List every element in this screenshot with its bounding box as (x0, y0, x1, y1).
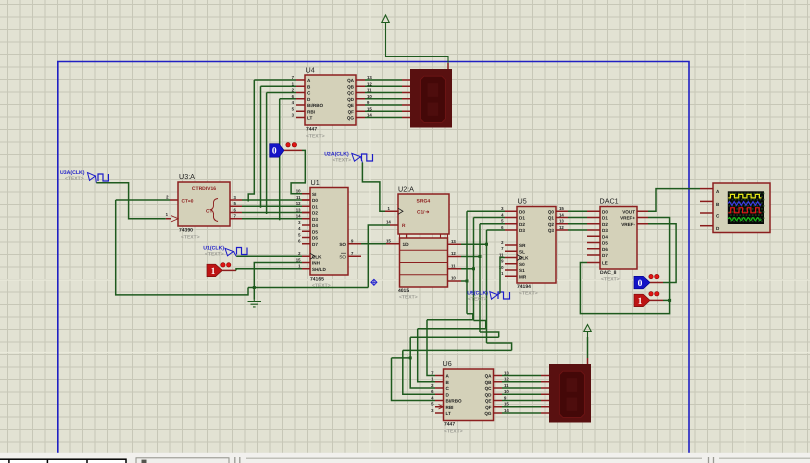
junction bus riser 0 tap (466, 280, 469, 283)
svg-text:<TEXT>: <TEXT> (65, 176, 84, 182)
U6 pin 15 stub (494, 406, 503, 408)
logicstate 0 tag near U4 (270, 144, 284, 158)
wire logic 1 to VREF+ net (663, 299, 670, 301)
wire U1 SO to U2:A 1D (361, 243, 386, 245)
DAC1 pin D0 stub (587, 210, 600, 212)
DAC1 pin D6 stub (587, 248, 600, 250)
U1 pin 10 stub (SI) (302, 193, 310, 195)
svg-text:D3: D3 (519, 228, 525, 233)
svg-text:LT: LT (446, 411, 451, 416)
U2:A output pin 12 stub (448, 256, 462, 258)
svg-text:SRG4: SRG4 (417, 199, 431, 205)
wire U5 Q2 to DAC1 (568, 223, 587, 225)
U4 pin 4 stub (296, 104, 305, 106)
wire ground net jog (116, 200, 248, 295)
U1 pin 11 stub (D0) (302, 199, 310, 201)
junction VREF+ and logic1 tee (668, 299, 671, 302)
junction bus riser 2 tap (479, 255, 482, 258)
svg-text:VREF+: VREF+ (620, 216, 635, 221)
svg-text:10: 10 (504, 389, 509, 394)
wire U5 Q0 to DAC1 (568, 210, 587, 212)
U6 pin 7 stub (435, 375, 444, 377)
display1 top pin stub (447, 63, 449, 70)
logicstate 0 pin stub (284, 149, 302, 151)
U5 pin 3 stub (D0) (505, 210, 517, 212)
wire U4 QF to display1 (365, 110, 402, 112)
svg-text:QD: QD (347, 97, 355, 102)
shift register U2:A 4015 body (398, 194, 449, 287)
svg-text:VREF-: VREF- (621, 222, 635, 227)
wire logic 1 to U1 SH/LD (236, 269, 302, 271)
U4 pin 1 stub (296, 85, 305, 87)
logicstate 1 indicator dots (221, 263, 231, 267)
svg-text:QF: QF (485, 405, 492, 410)
U5 pin 9 stub (S0) (505, 263, 517, 265)
svg-text:7447: 7447 (444, 422, 455, 428)
svg-text:QA: QA (347, 78, 355, 83)
svg-text:11: 11 (451, 263, 456, 268)
wire staircase horizontal 0 (427, 319, 473, 321)
wire riser B down to data bus (260, 86, 262, 208)
logicstate 1 tag near DAC (634, 294, 650, 307)
U1 pin 13 stub (D2) (302, 212, 310, 214)
U5 pin 7 stub (SL) (505, 250, 517, 252)
ground symbol (248, 300, 262, 307)
oscilloscope screen (728, 191, 765, 224)
U4 pin 13 stub (356, 79, 365, 81)
U6 pin 14 stub (494, 412, 503, 414)
U4 pin 5 stub (296, 110, 305, 112)
DAC1 pin D3 stub (587, 229, 600, 231)
wire U3:A Q1 to U1 D1 (242, 205, 302, 207)
counter U3:A 74390 body (178, 182, 230, 226)
display1 pin stub QG (402, 117, 411, 119)
U1 D0 stub (302, 199, 310, 201)
svg-text:QG: QG (484, 411, 492, 416)
U1 clock wedge (310, 253, 315, 259)
wire U4 input C horizontal (267, 92, 296, 94)
oscilloscope pin D stub (700, 225, 713, 227)
svg-text:Q2: Q2 (548, 222, 555, 227)
wire bus riser 3 to U5 D0 (487, 229, 506, 231)
svg-text:D1: D1 (602, 216, 608, 221)
svg-text:10: 10 (451, 276, 456, 281)
svg-text:11: 11 (296, 195, 301, 200)
U5 pin 2 stub (SR) (505, 244, 517, 246)
display2 pin stub QF (541, 406, 550, 408)
logicstate 1 tag near U1 (207, 264, 222, 277)
U6 pin 1 stub (435, 381, 444, 383)
U4 pin 15 stub (356, 110, 365, 112)
wire U3A(CLK) to U3:A clock pin (96, 183, 166, 219)
wire U5(CLK) riser to CLK pin (500, 258, 505, 294)
dac DAC1 body (600, 207, 637, 270)
svg-text:14: 14 (296, 214, 301, 219)
svg-text:D2: D2 (602, 222, 608, 227)
svg-text:BI/RBO: BI/RBO (446, 399, 463, 404)
svg-text:C1/: C1/ (417, 210, 425, 216)
svg-text:<TEXT>: <TEXT> (181, 235, 200, 241)
U5 pin 15 stub (Q0) (556, 210, 568, 212)
wire U2:A Q2 tap (461, 268, 474, 270)
logicstate 0 dots near DAC (649, 274, 659, 278)
U3:A output pin 5 stub (230, 205, 242, 207)
svg-text:S0: S0 (519, 262, 525, 267)
display1 pin stub QB (402, 85, 411, 87)
wire bus riser 2 vertical (479, 224, 481, 332)
wire U6 QG to display2 (502, 412, 541, 414)
wire bus riser 0 vertical (466, 211, 468, 313)
wire VCC to display2 top (587, 337, 589, 358)
svg-text:INH: INH (312, 261, 321, 266)
svg-text:D2: D2 (519, 222, 525, 227)
U5 pin 1 stub (MR) (505, 275, 517, 277)
svg-text:CTRDIV16: CTRDIV16 (192, 186, 216, 192)
decoder U4 7447 body (305, 75, 356, 125)
wire staircase drop 2 to U6 C (410, 337, 435, 388)
U6 pin 5 stub (435, 406, 444, 408)
wire U4 QG to display1 (365, 117, 402, 119)
decoder U6 7447 body (444, 369, 494, 421)
power VCC arrow top (382, 15, 389, 29)
DAC1 pin LE stub (587, 262, 600, 264)
svg-text:Q3: Q3 (548, 228, 555, 233)
svg-text:Q1: Q1 (548, 216, 555, 221)
svg-text:74194: 74194 (517, 284, 531, 290)
wire bus riser 3 vertical (486, 230, 488, 343)
wire U4 input B horizontal (261, 85, 297, 87)
U2:A pin 9 stub (clock) (385, 210, 398, 212)
display1 pin stub QE (402, 104, 411, 106)
svg-text:R: R (402, 223, 406, 229)
svg-text:<TEXT>: <TEXT> (519, 291, 538, 297)
U4 pin 6 stub (296, 98, 305, 100)
display2 pin stub QA (541, 375, 550, 377)
svg-text:<TEXT>: <TEXT> (468, 296, 487, 302)
generator U5(CLK) symbol (490, 292, 510, 300)
U6 pin 3 stub (435, 412, 444, 414)
svg-text:D4: D4 (312, 223, 318, 228)
wire U3:A Q0 to U1 D0 (242, 199, 302, 201)
svg-text:LE: LE (602, 261, 608, 266)
svg-text:<TEXT>: <TEXT> (601, 277, 620, 283)
wire U6 BI/RBO wire vertical (392, 358, 436, 401)
svg-text:4015: 4015 (398, 288, 409, 294)
svg-text:MR: MR (519, 274, 527, 279)
DAC1 pin VREF+ stub (637, 217, 648, 219)
svg-text:D0: D0 (602, 209, 608, 214)
svg-text:<TEXT>: <TEXT> (444, 429, 463, 435)
svg-text:CT=0: CT=0 (182, 199, 194, 205)
svg-text:U2:A: U2:A (398, 185, 414, 194)
U3:A pin 2 stub (CT=0) (170, 199, 178, 201)
U3:A output pin 6 stub (230, 212, 242, 214)
wire bus riser 1 to U5 D2 (474, 217, 506, 219)
svg-text:DAC_8: DAC_8 (600, 270, 617, 276)
U6 pin 12 stub (494, 381, 503, 383)
logicstate 0 near DAC pin stub (650, 282, 663, 284)
svg-text:12: 12 (504, 377, 509, 382)
svg-text:<TEXT>: <TEXT> (306, 134, 325, 140)
wire bus riser 2 to U5 D1 (480, 223, 505, 225)
svg-text:11: 11 (504, 383, 509, 388)
display2 pin stub QC (541, 387, 550, 389)
wire U1 INH to ground (254, 263, 302, 300)
U1 pin 1 stub (SH/LD) (302, 268, 310, 270)
generator U3A(CLK) symbol (88, 173, 109, 183)
wire staircase horizontal 3 (403, 349, 512, 351)
svg-text:QB: QB (485, 380, 493, 385)
power VCC arrow above display2 (584, 325, 591, 338)
U6 pin 13 stub (494, 375, 503, 377)
DAC1 pin VOUT stub (637, 210, 648, 212)
svg-text:D0: D0 (519, 209, 525, 214)
svg-text:10: 10 (296, 189, 301, 194)
U6 pin 10 stub (494, 393, 503, 395)
U5 pin 6 stub (D3) (505, 229, 517, 231)
svg-text:14: 14 (386, 220, 391, 225)
wire U4 input D horizontal (280, 98, 296, 100)
svg-text:<TEXT>: <TEXT> (399, 295, 418, 301)
svg-text:D0: D0 (312, 198, 318, 203)
U1 D1 stub (302, 205, 310, 207)
U5 pin 5 stub (D2) (505, 223, 517, 225)
svg-text:Q0: Q0 (548, 209, 555, 214)
wire U6 QA to display2 (502, 375, 541, 377)
display2 top pin stub (587, 358, 589, 365)
DAC1 pin D7 stub (587, 254, 600, 256)
wire U4 QC to display1 (365, 92, 402, 94)
junction BI/RBO tee (409, 356, 412, 359)
U3:A clock wedge (171, 216, 178, 222)
wire U2:A Q1 tap (461, 256, 480, 258)
wire riser D down to data bus (279, 99, 281, 221)
svg-text:LT: LT (307, 116, 312, 121)
wire staircase jog 1 (474, 321, 486, 329)
wire U4 QB to display1 (365, 85, 402, 87)
svg-text:D4: D4 (602, 234, 608, 239)
wire bus riser 1 vertical (473, 218, 475, 321)
wire staircase horizontal 2 (410, 336, 499, 338)
U1 pin 2 stub (CLK) (302, 255, 310, 257)
svg-text:QG: QG (347, 116, 355, 121)
U2:A pin 15 stub (1D) (386, 243, 400, 245)
oscilloscope pin A stub (700, 188, 713, 190)
U6 pin 11 stub (494, 387, 503, 389)
wire U2:A Q3 tap (461, 280, 467, 282)
wire U3:A Q3 to U1 D3 (242, 218, 302, 220)
svg-text:U4: U4 (306, 66, 315, 75)
U4 pin 7 stub (296, 79, 305, 81)
wire staircase jog 2 (480, 332, 499, 337)
U2:A clock wedge (398, 208, 403, 214)
U4 pin 9 stub (356, 104, 365, 106)
wire U6 QE to display2 (502, 400, 541, 402)
svg-text:74390: 74390 (179, 228, 193, 234)
U4 pin 12 stub (356, 85, 365, 87)
origin marker blue diamond (371, 279, 377, 285)
U4 pin 11 stub (356, 92, 365, 94)
wire DAC1 VREF+ net (580, 218, 669, 314)
generator U1(CLK) symbol (225, 248, 247, 257)
display1 pin stub QD (402, 98, 411, 100)
svg-text:RBI: RBI (446, 405, 454, 410)
oscilloscope pin C stub (700, 212, 713, 214)
svg-text:QF: QF (348, 109, 355, 114)
wire U2A(CLK) to U2:A clock (362, 163, 385, 212)
display2 pin stub QG (541, 412, 550, 414)
7-segment display 1 (410, 69, 452, 128)
wire U4 QD to display1 (365, 98, 402, 100)
junction bus riser 1 tap (472, 267, 475, 270)
status bar (0, 453, 810, 463)
wire bus riser 0 to U5 D3 (467, 210, 505, 212)
U1 pin name SO bar (339, 253, 346, 259)
wire U1(CLK) to U1 CLK pin (236, 255, 302, 257)
DAC1 pin VREF- stub (637, 223, 648, 225)
U4 pin 14 stub (356, 117, 365, 119)
svg-text:1: 1 (211, 267, 216, 277)
DAC1 pin D5 stub (587, 242, 600, 244)
oscilloscope pin B stub (700, 200, 713, 202)
U1 pin 14 stub (D3) (302, 218, 310, 220)
svg-text:D5: D5 (602, 241, 608, 246)
U6 pin 4 stub (435, 400, 444, 402)
DAC1 pin D1 stub (587, 217, 600, 219)
U1 pin 9 stub (SO) (348, 243, 361, 245)
wire staircase horizontal 1 (418, 328, 486, 330)
U6 pin 6 stub (435, 393, 444, 395)
U2:A output pin 11 stub (448, 268, 462, 270)
svg-text:7447: 7447 (306, 127, 317, 133)
U1 D3 stub (302, 218, 310, 220)
svg-text:QB: QB (347, 84, 355, 89)
wire U6 QB to display2 (502, 381, 541, 383)
U5 pin 4 stub (D1) (505, 217, 517, 219)
U6 RBI arrow (439, 405, 444, 410)
wire U6 QC to display2 (502, 387, 541, 389)
svg-text:U3:A: U3:A (179, 172, 195, 181)
wire staircase drop 0 to U6 A (427, 320, 435, 376)
svg-text:QE: QE (347, 103, 354, 108)
wire ground net to U2:A R (368, 225, 390, 288)
shift register U5 74194 body (517, 207, 556, 284)
svg-text:DAC1: DAC1 (600, 197, 619, 206)
svg-text:U5: U5 (518, 197, 527, 206)
wire U6 BI/RBO wire horizontal (392, 357, 411, 359)
svg-text:15: 15 (504, 402, 509, 407)
svg-text:13: 13 (451, 239, 456, 244)
logicstate 0 tag near DAC (634, 276, 650, 289)
svg-text:U1: U1 (311, 178, 320, 187)
wire staircase drop 3 to U6 D (403, 350, 435, 394)
display2 pin stub QE (541, 400, 550, 402)
wire DAC1 VREF- net (648, 224, 676, 283)
U1 pin 4 stub (D5) (302, 230, 310, 232)
svg-text:D6: D6 (602, 247, 608, 252)
svg-text:U6: U6 (443, 359, 452, 368)
U4 pin 10 stub (356, 98, 365, 100)
wire ground net horizontal (248, 287, 368, 289)
7-segment display 2 (549, 364, 591, 423)
shift register U1 74165 body (310, 188, 348, 276)
U3:A output brace (211, 199, 219, 222)
U2:A output pin 10 stub (448, 280, 462, 282)
DAC1 pin D4 stub (587, 235, 600, 237)
svg-text:D1: D1 (519, 216, 525, 221)
svg-text:QD: QD (485, 392, 493, 397)
svg-text:12: 12 (296, 201, 301, 206)
svg-text:VOUT: VOUT (622, 209, 635, 214)
U5 pin 11 stub (CLK) (505, 257, 517, 259)
svg-text:11: 11 (499, 252, 504, 257)
wire CT=0 wire from ground net riser (116, 199, 170, 201)
svg-text:15: 15 (559, 206, 564, 211)
U5 pin 12 stub (Q3) (556, 229, 568, 231)
junction ground net tee (253, 286, 256, 289)
U2:A output pin 13 stub (448, 243, 462, 245)
svg-text:12: 12 (559, 225, 564, 230)
wire U6 QD to display2 (502, 393, 541, 395)
svg-text:1D: 1D (403, 242, 410, 248)
wire U2:A Q0 tap (461, 243, 487, 245)
display2 pin stub QD (541, 393, 550, 395)
svg-text:14: 14 (559, 212, 564, 217)
wire U4 QE to display1 (365, 104, 402, 106)
svg-text:13: 13 (504, 370, 509, 375)
logicstate 0 indicator dots (286, 143, 297, 147)
wire VCC to display1 top (386, 29, 449, 64)
U5 pin 10 stub (S1) (505, 269, 517, 271)
svg-text:14: 14 (504, 408, 509, 413)
svg-text:1: 1 (638, 297, 643, 307)
U6 pin 2 stub (435, 387, 444, 389)
svg-text:D3: D3 (312, 217, 318, 222)
svg-text:D1: D1 (312, 204, 318, 209)
svg-text:<TEXT>: <TEXT> (205, 251, 224, 257)
oscilloscope body (713, 183, 770, 233)
svg-text:D3: D3 (602, 228, 608, 233)
U1 pin 15 stub (INH) (302, 262, 310, 264)
U1 D2 stub (302, 212, 310, 214)
svg-text:15: 15 (386, 238, 391, 243)
svg-text:BI/RBO: BI/RBO (307, 103, 324, 108)
svg-text:SL: SL (519, 249, 525, 254)
svg-text:<TEXT>: <TEXT> (332, 157, 351, 163)
wire staircase drop 1 to U6 B (418, 329, 435, 382)
U5 clock wedge (517, 255, 522, 261)
svg-text:D2: D2 (312, 211, 318, 216)
U4 pin 2 stub (296, 92, 305, 94)
sheet border (58, 62, 689, 454)
wire U4 QA to display1 (365, 79, 402, 81)
svg-text:S1: S1 (519, 268, 525, 273)
U1 pin 6 stub (D7) (302, 243, 310, 245)
display1 pin stub QC (402, 92, 411, 94)
svg-text:QE: QE (485, 399, 492, 404)
svg-text:0: 0 (272, 147, 277, 157)
wire DAC1 VOUT to scope A (648, 189, 700, 212)
junction bus riser 3 tap (485, 243, 488, 246)
generator U2A(CLK) symbol (352, 153, 373, 162)
U5 pin 13 stub (Q2) (556, 223, 568, 225)
U3:A pin 1 stub (clock) (166, 218, 171, 220)
display1 pin stub QA (402, 79, 411, 81)
svg-text:D5: D5 (312, 229, 318, 234)
svg-text:QA: QA (485, 374, 493, 379)
svg-text:SO: SO (339, 242, 346, 247)
svg-text:D6: D6 (312, 236, 318, 241)
